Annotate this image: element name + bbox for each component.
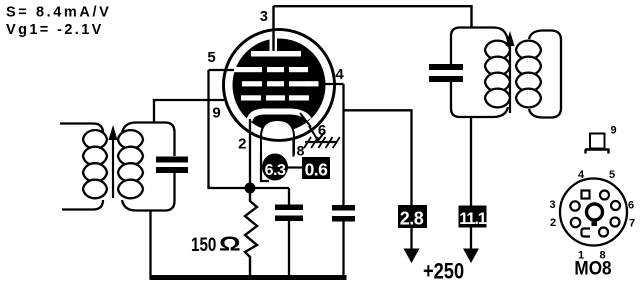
socket pin 4	[582, 191, 590, 199]
wire top rail (pin3 to T2)	[274, 6, 472, 27]
tube V1 grid row 3	[241, 95, 261, 100]
tube V1 grid row 2 (with pin4 stripe)	[242, 81, 262, 86]
transformer T2 primary winding (tank)	[451, 28, 510, 118]
wire pin 2 (cathode)	[249, 119, 251, 188]
current label 2.8	[398, 205, 427, 228]
svg-text:4: 4	[335, 66, 344, 83]
tube V1 heater dome outline	[261, 120, 294, 154]
wire heater right leg	[292, 138, 294, 157]
capacitor C3 (screen bypass)	[332, 205, 355, 211]
wire 6.3 to 0.6	[286, 166, 302, 168]
ground	[305, 141, 336, 143]
current label 11.1	[459, 206, 487, 228]
svg-text:5: 5	[207, 49, 215, 66]
svg-text:7: 7	[629, 218, 635, 230]
svg-text:2.8: 2.8	[400, 209, 424, 229]
T1 tuning arrow	[112, 136, 114, 198]
arrow to +250 (screen)	[404, 249, 420, 264]
svg-text:11.1: 11.1	[459, 210, 486, 228]
svg-text:5: 5	[609, 169, 615, 181]
svg-text:9: 9	[610, 125, 616, 137]
socket pin 5	[600, 191, 609, 200]
wire anode lead to pin 3	[272, 6, 274, 51]
tube V1 grid row 1 (with pin5 stripe)	[231, 67, 243, 72]
wire screen feed to +250	[344, 110, 412, 250]
wire pin 4 down	[342, 84, 344, 205]
tube V1 anode bar	[251, 51, 301, 57]
tube V1 heater dome fill	[261, 120, 294, 153]
wire pin 4 stub	[319, 83, 344, 85]
socket pin 8	[599, 228, 608, 237]
svg-text:6: 6	[318, 122, 326, 139]
transformer T2 secondary winding	[516, 31, 561, 118]
socket pin 7	[611, 218, 620, 227]
svg-text:2: 2	[550, 217, 556, 229]
svg-text:0.6: 0.6	[305, 160, 329, 180]
svg-text:+250: +250	[423, 260, 464, 284]
tube V1 anode lead stripe	[270, 33, 278, 51]
arrow to +250 (anode)	[463, 249, 479, 264]
ground rail (bottom)	[150, 275, 347, 280]
socket MO8 outline	[560, 179, 627, 246]
svg-text:8: 8	[297, 143, 305, 159]
T2 tuning arrow	[509, 44, 511, 113]
socket pin 6	[611, 201, 620, 210]
wire cathode node horizontal	[207, 187, 289, 189]
svg-text:S= 8.4mA/V: S= 8.4mA/V	[6, 5, 111, 21]
heater current label 0.6	[302, 157, 330, 179]
socket pin 1	[582, 229, 591, 237]
tube V1 envelope edge redraw	[224, 30, 335, 141]
wire T2 primary bottom to +250	[470, 117, 472, 250]
wire grid (pin 9) horizontal	[153, 99, 224, 101]
svg-text:150: 150	[191, 233, 216, 255]
wire tank1 bottom to ground rail	[149, 211, 151, 280]
svg-text:Vg1= -2.1V: Vg1= -2.1V	[6, 22, 104, 38]
wire heater left leg	[261, 152, 269, 181]
svg-text:6: 6	[628, 200, 634, 212]
capacitor C1 (tank capacitor)	[156, 157, 188, 163]
svg-text:MO8: MO8	[574, 256, 611, 278]
svg-text:4: 4	[578, 169, 585, 181]
svg-text:6.3: 6.3	[265, 162, 286, 179]
resistor R1 150Ω	[245, 188, 257, 279]
wire pin 5 stub	[209, 69, 235, 71]
heater voltage label 6.3	[262, 154, 288, 181]
tube V1 envelope	[224, 30, 335, 141]
wire tank1 top to grid wire	[153, 100, 155, 123]
svg-text:9: 9	[212, 105, 220, 122]
capacitor C4 (T2 tank capacitor)	[429, 64, 463, 70]
transformer T1 secondary winding (tank)	[118, 123, 175, 211]
transformer T1 primary winding	[60, 124, 107, 210]
wire pin 6 lead to ground	[309, 126, 325, 141]
node A (cathode junction)	[245, 183, 256, 194]
socket pin 2	[571, 218, 580, 227]
wire g3/cathode vertical (pin 5 down to cathode node)	[207, 70, 209, 188]
svg-text:Ω: Ω	[219, 233, 241, 256]
wire pin 6 internal lead	[300, 113, 311, 127]
tube V1 internal black disc	[233, 39, 326, 132]
socket pin 3	[570, 201, 579, 210]
socket top-cap icon (pin 9)	[590, 134, 605, 149]
capacitor C2 (cathode bypass)	[288, 188, 290, 205]
svg-text:3: 3	[260, 9, 268, 25]
socket center spigot	[587, 204, 603, 220]
svg-text:2: 2	[238, 136, 246, 153]
svg-text:3: 3	[549, 199, 555, 211]
tube V1 cathode arc	[250, 112, 310, 122]
